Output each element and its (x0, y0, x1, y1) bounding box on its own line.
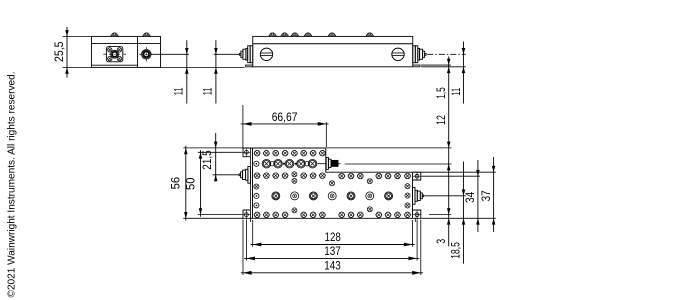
dimension 21,5 line and arrows (215, 133, 217, 182)
dimension 56 line and arrows (185, 146, 187, 221)
end view top screw 1 (111, 35, 118, 36)
front view left connector (250, 46, 253, 63)
dimension 34 extension line (422, 175, 481, 177)
svg-text:18,5: 18,5 (451, 242, 463, 259)
extension line foot top (421, 64, 451, 66)
lid screw row middle-right (339, 173, 345, 179)
front view outline (253, 36, 413, 66)
svg-text:11: 11 (203, 87, 215, 95)
dimension 25,5 line and arrows (66, 27, 68, 78)
dimension 143 extension lines (242, 220, 244, 276)
extension line foot bottom (421, 66, 466, 68)
front view right connector (413, 46, 416, 63)
end view bottom lip line (92, 64, 138, 66)
top view inner left edge (249, 148, 251, 222)
dimension 3 extension line (429, 214, 451, 216)
centerline from J2 to first dimension line (151, 53, 189, 55)
tuning screw row (272, 192, 280, 200)
dimension 11 third line and arrows (463, 42, 465, 104)
lid screw row top (254, 150, 260, 156)
bottom-right tab inner line (414, 218, 416, 222)
end view top screw 2 (143, 35, 150, 36)
svg-text:143: 143 (324, 260, 341, 272)
dimension 21,5 extension line (213, 174, 239, 176)
lid screw row bottom (254, 212, 260, 218)
dimension 37 extension line (413, 171, 496, 173)
bottom-right flange tab (413, 210, 421, 218)
top view outline (243, 148, 421, 218)
dimension 18,5 line and arrows (463, 162, 465, 264)
mounting hole top-left (245, 150, 249, 154)
dimension 12 arrows (447, 142, 451, 148)
bottom extension line between views (161, 66, 245, 68)
square flange connector J1 corner screws (108, 48, 112, 52)
svg-text:50: 50 (186, 178, 198, 191)
end view outline (92, 36, 161, 67)
dimension 25,5 extension lines (63, 35, 92, 37)
front view lid screws (269, 35, 276, 36)
left column screws (254, 184, 259, 189)
dimension 137 extension lines (245, 220, 247, 261)
dimension 66,67 extension lines (242, 105, 244, 150)
dimension 11 second line and arrows (215, 40, 217, 103)
top view SMB connector (326, 157, 328, 169)
svg-text:137: 137 (324, 246, 341, 258)
round connector J2 knurled nut (142, 50, 152, 60)
dimension 18,5 extension line (425, 195, 466, 197)
dimension 12 extension lines (327, 147, 452, 149)
svg-text:21,5: 21,5 (202, 150, 214, 169)
dimension 37 line and arrows (493, 157, 495, 232)
svg-text:©2021 Wainwright Instruments.: ©2021 Wainwright Instruments. All rights… (6, 72, 17, 298)
offset screw near step corner (330, 181, 335, 186)
mounting hole bottom-left (245, 213, 249, 217)
mounting hole bottom-right (415, 213, 419, 217)
mounting hole top-right (415, 174, 419, 178)
top view left connector (248, 166, 251, 183)
dimension 34 line and arrows (477, 160, 479, 232)
dimension 1,5 arrows (447, 59, 451, 65)
lid screw row middle-left (254, 173, 260, 179)
dimension 143 line and arrows (241, 272, 423, 274)
dimension 50 extension lines (198, 151, 242, 153)
front view left mounting foot (246, 65, 253, 67)
svg-text:37: 37 (481, 190, 493, 201)
svg-text:11: 11 (451, 88, 463, 96)
dimension 3 arrows (447, 208, 451, 214)
svg-text:128: 128 (325, 232, 341, 244)
end view lid line (92, 43, 161, 45)
svg-text:66,67: 66,67 (272, 112, 298, 124)
top-right flange tab (413, 172, 421, 180)
svg-text:3: 3 (436, 239, 448, 244)
svg-text:1,5: 1,5 (436, 87, 448, 99)
offset screws (292, 208, 297, 213)
end view divider (137, 36, 139, 67)
front view centerline dash-dot (427, 53, 465, 55)
dimension 56 extension lines (183, 147, 250, 149)
dimension 11 first line and arrows (186, 40, 188, 103)
dimension 137 line and arrows (244, 257, 419, 259)
svg-text:56: 56 (171, 177, 183, 190)
dimension column line 1,5 12 3 (448, 57, 450, 247)
top view right connector (413, 187, 416, 204)
bottom-left flange tab (243, 210, 250, 218)
top-left flange tab (243, 148, 250, 157)
dimension 128 extension lines (252, 220, 254, 247)
square flange connector J1 body (106, 47, 122, 62)
front view left tuning screw (260, 48, 272, 60)
dimension 128 line and arrows (251, 244, 415, 246)
right column screws (405, 184, 410, 189)
svg-text:12: 12 (436, 115, 448, 125)
svg-text:25,5: 25,5 (54, 41, 66, 62)
centerline extension to front view connector (214, 53, 240, 55)
resonator chain row (254, 161, 259, 166)
front view lid line (253, 43, 413, 45)
round connector J2 crosshair ticks (139, 53, 141, 55)
svg-text:34: 34 (465, 191, 477, 203)
square flange connector J1 center contact (111, 50, 119, 58)
dimension 50 line and arrows (200, 150, 202, 217)
dimension 66,67 line and arrows (241, 123, 329, 125)
front view right mounting foot (413, 65, 420, 67)
front view right tuning screw (392, 48, 404, 60)
bottom edge extension line right (421, 217, 496, 219)
round connector J2 center contact (144, 52, 149, 57)
svg-text:11: 11 (174, 87, 186, 95)
